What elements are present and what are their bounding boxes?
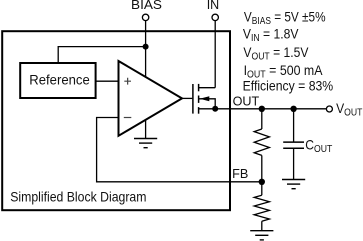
wire: R1 bottom lead [261, 155, 263, 181]
svg-text:IN: IN [207, 0, 220, 12]
junction dot: FB node [259, 179, 265, 185]
wire: COUT top lead [293, 109, 295, 142]
op-amp - input marker [124, 117, 132, 119]
transistor Q1 channel segments [198, 84, 200, 114]
ground: COUT [282, 179, 305, 181]
op-amp + input marker [124, 78, 131, 85]
svg-text:FB: FB [232, 167, 248, 181]
wire: IN terminal down to transistor drain [214, 21, 216, 88]
wire: op-amp ground stem [145, 120, 147, 139]
capacitor COUT [283, 142, 304, 148]
terminal VOUT [326, 106, 332, 112]
junction dot: OUT / R1 [259, 106, 265, 112]
junction dot: OUT / COUT [290, 106, 296, 112]
ground: R2 [250, 230, 273, 232]
wire: R2 top lead [261, 182, 263, 195]
outer box (Simplified Block Diagram boundary) [2, 31, 230, 210]
wire: BIAS terminal down to op-amp supply [145, 21, 147, 77]
block: Reference [20, 63, 95, 98]
wire: op-amp output to transistor gate [182, 97, 192, 99]
wire: COUT bottom lead [293, 148, 295, 179]
wire: Reference output to op-amp + input [96, 80, 118, 82]
svg-text:OUT: OUT [233, 94, 260, 108]
transistor Q1 drain stub [199, 87, 216, 89]
svg-text:Reference: Reference [29, 72, 89, 87]
wire: OUT net (transistor source through box edge to VOUT terminal) [199, 108, 327, 110]
resistor R2 [254, 195, 269, 221]
terminal IN [212, 14, 218, 20]
wire: Reference top to BIAS line [58, 47, 145, 64]
junction dot: source / OUT [212, 106, 218, 112]
resistor R1 [254, 129, 269, 155]
wire: FB feedback path to op-amp - input [97, 118, 262, 182]
junction dot: BIAS / Reference supply [143, 44, 149, 50]
wire: R1 top lead [261, 109, 263, 129]
transistor Q1 body stub with arrow [199, 96, 216, 109]
op-amp U1 [119, 61, 183, 136]
svg-text:BIAS: BIAS [131, 0, 162, 12]
transistor Q1 (NMOS pass FET) gate bar [192, 84, 194, 114]
ground: op-amp [134, 138, 157, 140]
svg-text:Simplified Block Diagram: Simplified Block Diagram [10, 189, 146, 205]
terminal BIAS [142, 14, 148, 20]
wire: R2 bottom lead [261, 221, 263, 231]
svg-text:Efficiency = 83%: Efficiency = 83% [243, 78, 334, 94]
